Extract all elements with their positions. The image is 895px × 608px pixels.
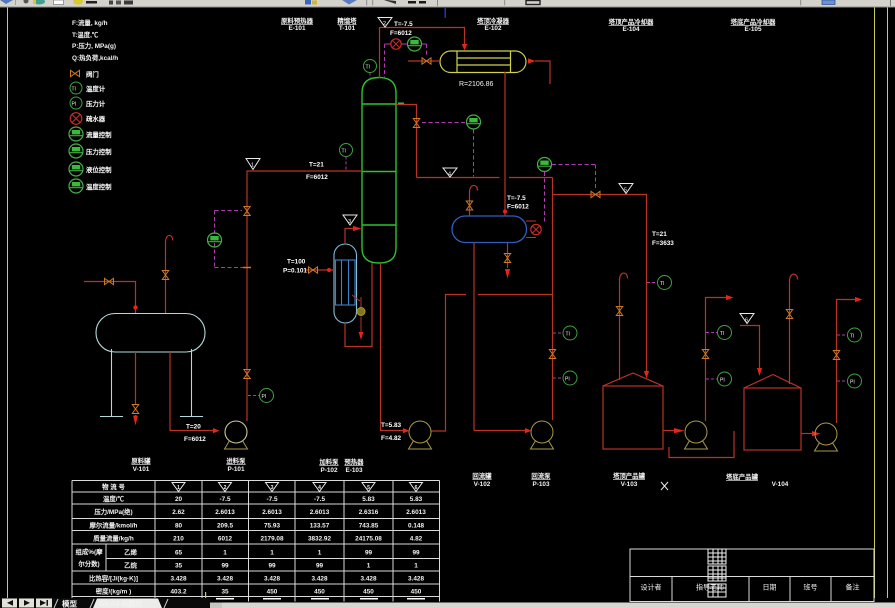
- svg-text:T=5.83: T=5.83: [381, 422, 402, 429]
- condensate header pipes: [345, 263, 372, 347]
- stream marker 3: [343, 215, 357, 225]
- svg-text:3.428: 3.428: [264, 576, 280, 583]
- svg-text:乙烯: 乙烯: [124, 548, 137, 557]
- drawing title vertical text: [708, 549, 726, 597]
- svg-text:备注: 备注: [846, 583, 860, 592]
- svg-text:液位控制: 液位控制: [86, 165, 112, 174]
- svg-text:加料泵: 加料泵: [318, 457, 339, 466]
- svg-text:0.148: 0.148: [408, 523, 424, 530]
- svg-text:进料泵: 进料泵: [226, 456, 246, 465]
- steam trap style valve on control loop: [391, 39, 401, 49]
- svg-text:5: 5: [367, 485, 370, 491]
- svg-text:1: 1: [223, 550, 227, 557]
- svg-text:35: 35: [221, 589, 229, 596]
- svg-text:5.83: 5.83: [362, 496, 375, 503]
- svg-text:743.85: 743.85: [359, 523, 379, 530]
- svg-text:3.428: 3.428: [361, 576, 377, 583]
- svg-text:TI: TI: [366, 65, 370, 71]
- svg-text:24175.08: 24175.08: [355, 536, 382, 543]
- svg-text:乙烷: 乙烷: [124, 561, 137, 570]
- svg-text:4: 4: [318, 485, 321, 491]
- svg-text:35: 35: [175, 563, 183, 570]
- instrument PI on riser: [260, 389, 274, 403]
- svg-text:T=21: T=21: [309, 162, 324, 169]
- svg-text:2.6316: 2.6316: [359, 509, 379, 516]
- svg-text:温度/℃: 温度/℃: [103, 494, 125, 503]
- svg-text:TI: TI: [566, 332, 570, 338]
- svg-text:3.428: 3.428: [171, 576, 187, 583]
- column vapor side nozzle: [398, 103, 404, 106]
- svg-text:T=-7.5: T=-7.5: [394, 21, 413, 28]
- P-104 discharge riser and product arrow: [706, 298, 727, 422]
- svg-text:2.62: 2.62: [172, 509, 185, 516]
- svg-text:1: 1: [414, 563, 418, 570]
- svg-text:20: 20: [175, 496, 183, 503]
- pipe from column nozzle down: [396, 105, 417, 178]
- svg-text:T:温度,℃: T:温度,℃: [72, 30, 99, 39]
- svg-text:2.6013: 2.6013: [310, 509, 330, 516]
- svg-text:450: 450: [411, 589, 422, 596]
- svg-text:E-101: E-101: [288, 25, 305, 32]
- svg-text:3832.92: 3832.92: [308, 536, 332, 543]
- V-104 outlet to pump P-105: [801, 433, 812, 435]
- stream marker 6: [740, 314, 754, 324]
- stream marker 1: [246, 159, 260, 170]
- svg-text:4.82: 4.82: [410, 536, 423, 543]
- PC control loop on overhead: [385, 43, 392, 45]
- legend control valves: [69, 127, 83, 141]
- svg-text:403.2: 403.2: [171, 589, 187, 596]
- svg-text:尔分数): 尔分数): [77, 559, 99, 568]
- instrument PI on P-105 riser: [848, 374, 862, 388]
- svg-text:F=3633: F=3633: [652, 240, 674, 247]
- crosshair cursor X: [661, 482, 668, 490]
- instrument PI on riser: [563, 371, 577, 385]
- svg-text:塔顶产品冷却器: 塔顶产品冷却器: [609, 17, 654, 26]
- svg-text:原料罐: 原料罐: [131, 456, 151, 465]
- legend steam trap: [70, 113, 82, 125]
- drum vent gooseneck: [470, 185, 478, 192]
- svg-text:-7.5: -7.5: [314, 496, 325, 503]
- svg-text:设计者: 设计者: [641, 583, 662, 592]
- feed inlet pipe: [84, 282, 136, 314]
- pump P-105: [815, 423, 838, 451]
- svg-text:温度控制: 温度控制: [86, 182, 112, 191]
- svg-text:压力控制: 压力控制: [86, 147, 112, 156]
- svg-text:回流罐: 回流罐: [472, 471, 492, 480]
- tank outlet to P-101: [170, 352, 213, 431]
- svg-text:R=2106.86: R=2106.86: [459, 81, 494, 88]
- instrument PI on P-104 riser: [718, 372, 732, 386]
- svg-text:2: 2: [224, 485, 227, 491]
- svg-text:P-103: P-103: [532, 481, 549, 488]
- svg-text:原料预热器: 原料预热器: [281, 16, 314, 25]
- pump P-102: [409, 421, 432, 449]
- svg-text:3: 3: [271, 485, 274, 491]
- level gauge on drum right end: [526, 220, 536, 222]
- pump P-104: [685, 421, 708, 449]
- svg-text:V-104: V-104: [772, 481, 789, 488]
- svg-text:塔顶产品罐: 塔顶产品罐: [613, 471, 646, 480]
- svg-text:班号: 班号: [804, 583, 818, 592]
- svg-text:99: 99: [316, 563, 324, 570]
- svg-text:质量流量/kg/h: 质量流量/kg/h: [93, 534, 134, 543]
- steam inlet pipe: [305, 269, 334, 271]
- svg-text:组成%(摩: 组成%(摩: [76, 547, 104, 556]
- preheated feed pipe into column: [345, 229, 353, 245]
- V-104 vent gooseneck: [790, 274, 798, 281]
- stream marker 2: [378, 18, 392, 28]
- svg-text:P=0.101: P=0.101: [283, 268, 307, 275]
- svg-text:2.6013: 2.6013: [262, 509, 282, 516]
- yellow tick artifact: [205, 592, 206, 598]
- svg-text:物 流 号: 物 流 号: [102, 482, 125, 491]
- svg-text:75.93: 75.93: [264, 523, 280, 530]
- svg-text:209.5: 209.5: [217, 523, 233, 530]
- svg-text:3.428: 3.428: [312, 576, 328, 583]
- svg-text:PI: PI: [72, 102, 77, 108]
- svg-text:模型: 模型: [62, 599, 77, 608]
- svg-text:3.428: 3.428: [408, 576, 424, 583]
- pump P-101: [225, 421, 248, 449]
- drum drain with valve and arrow: [507, 243, 509, 269]
- svg-text:T=-7.5: T=-7.5: [507, 195, 526, 202]
- instrument TI column top: [364, 60, 377, 73]
- table body text: [76, 494, 427, 596]
- instrument TI on riser: [563, 326, 577, 340]
- svg-text:F:流量, kg/h: F:流量, kg/h: [72, 18, 108, 27]
- tank legs: [100, 349, 203, 417]
- instrument TI on tank inlet: [658, 276, 672, 290]
- svg-text:塔底产品罐: 塔底产品罐: [726, 472, 759, 481]
- svg-text:1: 1: [177, 485, 180, 491]
- V-103 outlet to pump P-104: [663, 430, 674, 432]
- svg-text:E-104: E-104: [622, 26, 639, 33]
- svg-text:摩尔流量/kmol/h: 摩尔流量/kmol/h: [90, 521, 138, 530]
- svg-text:133.57: 133.57: [310, 523, 330, 530]
- svg-text:比热容/[J/(kg·K)]: 比热容/[J/(kg·K)]: [89, 574, 138, 583]
- svg-text:4: 4: [448, 172, 451, 178]
- legend valve symbol: [71, 70, 80, 76]
- svg-text:预热器: 预热器: [344, 457, 364, 466]
- tank drain valve and arrow: [135, 352, 137, 404]
- legend TI: [70, 82, 82, 94]
- svg-text:450: 450: [267, 589, 278, 596]
- feed pipe to column: [247, 170, 362, 172]
- svg-text:E-105: E-105: [744, 26, 761, 33]
- svg-text:1: 1: [270, 550, 274, 557]
- svg-text:T-101: T-101: [339, 25, 356, 32]
- pump bottom drain header: [669, 431, 734, 458]
- svg-text:2: 2: [383, 21, 386, 27]
- svg-text:-7.5: -7.5: [266, 496, 277, 503]
- horizontal pipe y=177: [417, 177, 500, 179]
- cooling water inlet pipe: [408, 60, 440, 62]
- svg-text:压力/MPa(绝): 压力/MPa(绝): [94, 507, 132, 516]
- svg-text:2.6013: 2.6013: [215, 509, 235, 516]
- svg-text:密度/(kg/m ): 密度/(kg/m ): [95, 587, 132, 596]
- svg-text:P:压力, MPa(g): P:压力, MPa(g): [72, 41, 116, 50]
- svg-text:1: 1: [251, 163, 254, 169]
- svg-text:塔底产品冷却器: 塔底产品冷却器: [731, 17, 776, 26]
- svg-text:F=6012: F=6012: [306, 174, 328, 181]
- svg-text:V-103: V-103: [621, 481, 638, 488]
- svg-text:65: 65: [175, 550, 183, 557]
- drum outlet pipe down to pump P-103: [473, 243, 475, 431]
- svg-text:V-101: V-101: [133, 466, 150, 473]
- svg-text:99: 99: [268, 563, 276, 570]
- svg-text:TI: TI: [660, 281, 664, 287]
- svg-text:2179.08: 2179.08: [260, 536, 284, 543]
- svg-text:PI: PI: [565, 377, 570, 383]
- FC control loop on feed: [215, 211, 247, 268]
- feed tank V-101: [96, 314, 205, 353]
- horizontal scrollbar: [210, 603, 895, 608]
- distillate pipe y=194 to tank V-103: [553, 195, 647, 376]
- svg-text:T=100: T=100: [287, 259, 306, 266]
- svg-text:450: 450: [314, 589, 325, 596]
- svg-text:P-101: P-101: [227, 466, 244, 473]
- steam trap on condensate pipe: [360, 297, 362, 308]
- svg-text:Gb A3 标题栏: Gb A3 标题栏: [99, 599, 142, 608]
- svg-text:P-102: P-102: [320, 467, 337, 474]
- control loop on riser x=416: [413, 119, 419, 128]
- svg-text:PI: PI: [850, 380, 855, 386]
- svg-text:F=6012: F=6012: [184, 436, 206, 443]
- svg-text:精馏塔: 精馏塔: [337, 16, 357, 25]
- svg-text:80: 80: [175, 523, 183, 530]
- blue tick artifact: [445, 8, 447, 18]
- svg-text:塔顶冷凝器: 塔顶冷凝器: [477, 16, 510, 25]
- svg-text:E-103: E-103: [345, 467, 362, 474]
- partial last table row: [90, 598, 425, 600]
- svg-text:99: 99: [221, 563, 229, 570]
- pump P-103 discharge riser: [552, 178, 554, 421]
- instrument TI on P-105 riser: [848, 328, 862, 342]
- control valve: [408, 37, 422, 51]
- stream marker 5: [619, 184, 633, 194]
- legend PI: [70, 97, 82, 109]
- V-103 vent gooseneck: [620, 273, 628, 280]
- svg-text:温度计: 温度计: [86, 84, 106, 93]
- stream marker 4: [443, 168, 457, 178]
- svg-text:T=20: T=20: [186, 424, 201, 431]
- svg-text:流量控制: 流量控制: [86, 130, 112, 139]
- svg-text:V-102: V-102: [474, 481, 491, 488]
- svg-text:99: 99: [365, 550, 373, 557]
- svg-text:TI: TI: [720, 331, 724, 337]
- svg-text:TI: TI: [342, 149, 346, 155]
- P-102 discharge pipe up and across: [431, 295, 466, 432]
- svg-text:-7.5: -7.5: [219, 496, 230, 503]
- P-101 discharge riser: [246, 171, 248, 422]
- svg-text:TI: TI: [72, 87, 76, 93]
- svg-text:6012: 6012: [218, 536, 233, 543]
- svg-text:疏水器: 疏水器: [86, 114, 106, 123]
- svg-text:5.83: 5.83: [410, 496, 423, 503]
- condensate pipe E-102 to V-102: [504, 72, 506, 216]
- svg-text:PI: PI: [262, 394, 267, 400]
- svg-text:T=21: T=21: [652, 231, 667, 238]
- LC controller loop: [544, 172, 546, 224]
- svg-text:回流泵: 回流泵: [531, 471, 551, 480]
- svg-text:5: 5: [624, 188, 627, 194]
- svg-text:PI: PI: [720, 378, 725, 384]
- svg-text:6: 6: [745, 318, 748, 324]
- svg-text:1: 1: [367, 563, 371, 570]
- svg-text:F=6012: F=6012: [507, 204, 529, 211]
- svg-text:日期: 日期: [763, 584, 777, 592]
- svg-text:99: 99: [412, 550, 420, 557]
- cooling water outlet pipe: [535, 61, 550, 84]
- svg-text:压力计: 压力计: [86, 99, 106, 108]
- svg-text:F=4.82: F=4.82: [381, 435, 402, 442]
- svg-text:TI: TI: [850, 334, 854, 340]
- svg-text:1: 1: [318, 550, 322, 557]
- svg-text:6: 6: [415, 485, 418, 491]
- instrument TI on P-104 riser: [718, 326, 732, 340]
- P-105 discharge riser and product arrow: [837, 300, 856, 424]
- svg-text:Q:热负荷,kcal/h: Q:热负荷,kcal/h: [72, 53, 118, 62]
- svg-text:E-102: E-102: [484, 25, 501, 32]
- svg-text:3: 3: [348, 219, 351, 225]
- svg-text:F=6012: F=6012: [390, 30, 412, 37]
- svg-text:阀门: 阀门: [86, 70, 99, 79]
- svg-text:210: 210: [173, 536, 184, 543]
- V-101 vent gooseneck: [166, 235, 173, 242]
- svg-text:3.428: 3.428: [217, 576, 233, 583]
- svg-text:2.6013: 2.6013: [406, 509, 426, 516]
- instrument TI feed line: [340, 144, 353, 157]
- svg-text:450: 450: [363, 589, 374, 596]
